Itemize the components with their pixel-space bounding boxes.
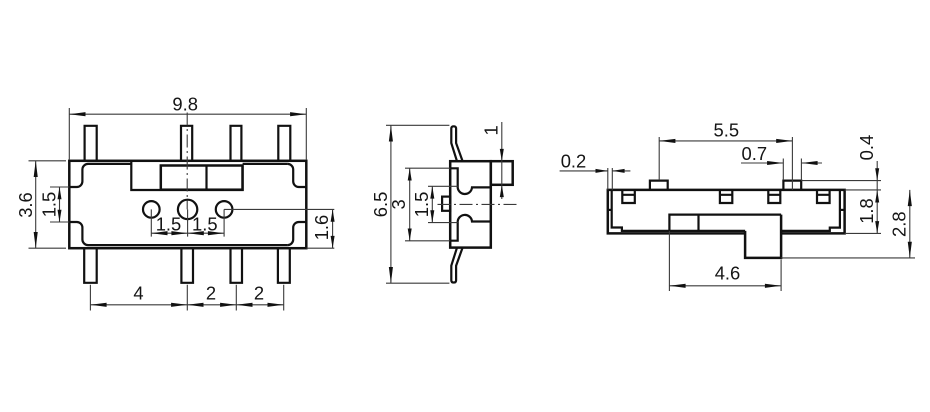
svg-text:9.8: 9.8 [172,93,198,114]
svg-text:0.2: 0.2 [561,150,587,171]
dimension 1.6 line and arrows [332,209,334,248]
svg-text:2: 2 [254,283,264,304]
svg-text:1.5: 1.5 [411,192,432,218]
dimension 1.5 side line and arrows [431,186,433,222]
dimension 0.7 extension lines [783,159,801,181]
side view lower frame contour with notch [450,215,491,241]
side view top mounting lug [451,126,462,161]
left view contact hole left [143,201,160,218]
left view top pin 2 [181,126,192,161]
side view bottom mounting lug [451,248,462,283]
left view slider recess [131,161,242,190]
svg-text:0.7: 0.7 [742,143,768,164]
svg-text:5.5: 5.5 [714,119,740,140]
dimension 3 extension lines [405,168,450,241]
dimension 1.6 bottom extension line [306,247,334,249]
dimension 1.6 leader from right hole [224,208,334,210]
svg-text:3.6: 3.6 [15,192,36,218]
side view body outline [450,161,491,247]
dimension 4.6 extension lines [669,231,781,291]
left view vertical centerline [186,113,188,210]
svg-text:1: 1 [481,125,502,135]
dimension 9.8 extension lines [69,108,306,160]
front view knob bump right [783,181,801,190]
svg-text:3: 3 [388,199,409,209]
dimension 0.7 line and arrows [741,162,822,164]
side view terminal pin end [442,197,450,211]
left view slider knob [161,166,243,190]
svg-text:1.5: 1.5 [192,214,218,235]
left view bottom pin 4 [278,248,290,283]
left view top pin 3 [231,126,242,161]
left view contact hole center [178,200,197,219]
dimension 1.5 left extension lines [50,187,69,222]
dimension 4.6 line and arrows [669,285,781,287]
front view solder tab [745,215,781,258]
front view knob bump left [650,181,668,190]
dimension 1.5 left line and arrows [59,187,61,222]
left view bottom pin 2 [181,248,193,283]
hole spacing extension lines [151,209,224,236]
dimension 1 line and arrows [501,122,503,199]
left view knob divider [205,166,207,190]
dimension 6.5 line and arrows [390,125,392,283]
left view contact hole right [216,201,233,218]
front view right seam tick [840,209,845,211]
dimension 2.8 bottom extension line [781,257,915,259]
svg-text:1.8: 1.8 [856,198,877,224]
dimension 0.2 line and arrows [560,170,631,172]
dimension 0.4 line and arrows [876,161,878,233]
left view body outline [69,161,306,248]
left view bottom-left corner relief [69,222,88,245]
dimension 9.8 line and arrows [69,113,306,115]
hole spacing dimension line and arrows [151,232,224,234]
side view upper frame contour with notch [450,168,491,194]
front view terminal tab 4 [817,190,830,203]
svg-text:0.4: 0.4 [856,135,877,161]
dimension 5.5 extension lines [659,137,792,190]
svg-text:1.5: 1.5 [156,214,182,235]
pin pitch extension lines [90,285,283,311]
front view inner frame right [781,190,840,231]
front view left seam tick [608,209,612,211]
front view body outline [608,190,845,234]
dimension 1.8 bottom extension line [845,232,881,234]
dimension 0.2 extension lines [608,168,613,190]
pin pitch dimension line and arrows [90,304,283,306]
svg-text:2.8: 2.8 [888,211,909,237]
dimension 3.6 line and arrows [35,161,37,248]
dimension 3.6 extension lines [29,161,67,248]
left view inner bottom edge line [88,244,288,246]
front view inner frame left [612,190,745,231]
dimension 6.5 extension lines [386,125,449,283]
dimension 3 line and arrows [409,168,411,241]
dimension 0.4 extension lines [801,181,881,190]
dimension 1.8 arrow [875,221,879,233]
left view bottom pin 3 [231,248,243,283]
svg-text:1.6: 1.6 [311,215,332,241]
front view terminal tab 3 [768,190,780,203]
svg-text:4: 4 [133,283,143,304]
svg-text:1.5: 1.5 [38,192,59,218]
dimension 5.5 line and arrows [659,140,792,142]
front view terminal tab 2 [720,190,732,203]
dimension 1.5 side extension lines [428,186,458,222]
left view bottom pin 1 [84,248,97,283]
left view top pin 4 [278,126,290,161]
svg-text:4.6: 4.6 [715,263,741,284]
left view top pin 1 [85,126,97,161]
side view horizontal centerline [438,203,519,205]
left view bottom-right corner relief [288,222,307,245]
dimension 2.8 line and arrows [909,190,911,258]
svg-text:2: 2 [206,283,216,304]
left view top-left corner relief [69,164,88,187]
front view terminal tab 1 [622,190,635,203]
left view top-right corner relief [288,164,307,187]
front view base plate [669,215,781,231]
side view knob [491,161,513,185]
left view inner top edge line [88,163,288,165]
